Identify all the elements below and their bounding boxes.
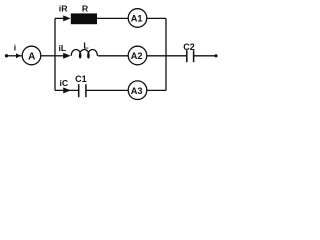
svg-text:iL: iL	[59, 43, 67, 53]
wire: ammeter A3 to right bus	[147, 89, 166, 91]
svg-text:C1: C1	[75, 74, 87, 84]
node: input terminal dot	[5, 54, 8, 57]
svg-text:A: A	[28, 52, 35, 63]
wire: left bus vertical	[54, 18, 56, 90]
wire: inductor L to ammeter A2	[98, 55, 128, 57]
wire: ammeter A2 through right bus to capacitor C2	[147, 55, 187, 57]
ammeter A (U1)	[22, 46, 41, 65]
svg-text:A3: A3	[131, 86, 143, 96]
current arrow iR	[63, 15, 70, 21]
wire: capacitor C1 to ammeter A3	[86, 89, 128, 91]
svg-text:iR: iR	[59, 3, 68, 13]
wire: ammeter A to left bus junction	[41, 55, 55, 57]
current arrow iC	[63, 87, 71, 93]
capacitor C1	[79, 84, 86, 97]
node: output terminal dot	[214, 54, 217, 57]
ammeter A2	[128, 46, 147, 65]
resistor R	[71, 13, 97, 24]
wire: resistor R to ammeter A1	[97, 17, 128, 19]
wire: middle branch, bus to inductor L	[55, 55, 65, 57]
svg-text:i: i	[14, 42, 16, 52]
wire: input lead to ammeter A	[7, 55, 23, 57]
svg-text:R: R	[82, 3, 89, 13]
svg-text:A2: A2	[131, 51, 143, 61]
ammeter A1	[128, 9, 147, 28]
wire: ammeter A1 to right bus	[147, 17, 166, 19]
wire: capacitor C2 to output terminal	[194, 55, 216, 57]
ammeter A3	[128, 81, 147, 100]
inductor L	[71, 50, 97, 58]
svg-text:iC: iC	[60, 78, 69, 88]
current arrow i (input)	[16, 53, 21, 58]
current arrow iL	[63, 53, 70, 59]
wire: bottom branch, bus to capacitor C1	[55, 89, 79, 91]
svg-text:A1: A1	[131, 14, 143, 24]
svg-text:C2: C2	[183, 42, 195, 52]
wire: top branch, bus to resistor R	[55, 17, 65, 19]
wire: right bus vertical	[165, 18, 167, 90]
capacitor C2	[187, 50, 194, 62]
svg-text:L: L	[83, 41, 89, 51]
